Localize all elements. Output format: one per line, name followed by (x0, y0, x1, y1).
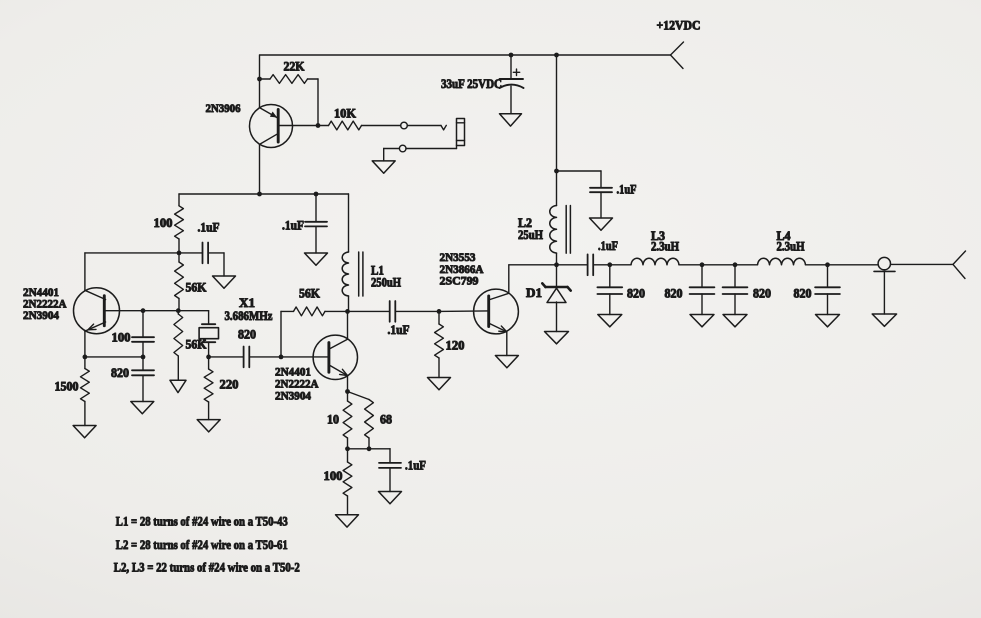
wire emitter bypass to ground (389, 468, 391, 492)
diode D1 zener (542, 265, 570, 332)
ground 120 (428, 378, 451, 390)
inductor L2 25uH (550, 206, 557, 254)
node 120 junction (437, 309, 442, 314)
resistor 1500 emitter (81, 357, 90, 426)
node top feed at bypass cap (314, 192, 319, 197)
svg-text:250uH: 250uH (371, 276, 401, 290)
capacitor 820 shunt 2 (690, 265, 715, 315)
capacitor 820 shunt 4 (815, 265, 840, 315)
label 820 shunt 2 (665, 287, 683, 301)
node top feed at 2N3906 collector (257, 192, 262, 197)
label 56K lower (186, 338, 207, 352)
capacitor .1uF interstage 2 (348, 301, 440, 322)
svg-text:2N3904: 2N3904 (23, 308, 59, 322)
node LPF-4 (825, 262, 830, 267)
label .1uF emitter bypass (405, 459, 426, 473)
wire base line to crystal (179, 310, 209, 312)
label Q2 2N4401 (275, 365, 311, 379)
svg-text:820: 820 (794, 287, 812, 301)
svg-text:.1uF: .1uF (617, 183, 637, 197)
label 820 shunt 4 (794, 287, 812, 301)
resistor 68 (348, 392, 374, 449)
label +12VDC (657, 19, 701, 33)
ground supply bypass (590, 218, 613, 230)
label 2N3866A (440, 262, 484, 276)
label 100 feed (154, 216, 173, 230)
svg-text:68: 68 (380, 413, 392, 427)
label 2N3906 (206, 101, 241, 115)
label 3.686MHz (225, 309, 273, 323)
output connector center pin (878, 257, 890, 269)
svg-text:100: 100 (324, 469, 343, 483)
ground osc bypass 1 (213, 276, 236, 288)
capacitor 820 interstage (209, 347, 281, 368)
node LPF-3 (733, 262, 738, 267)
svg-text:1500: 1500 (55, 380, 79, 394)
capacitor .1uF output coupling (588, 254, 594, 275)
node Q1 collector junction (177, 251, 182, 256)
node 2N3906 base junction (316, 123, 321, 128)
ground 820 feedback (131, 402, 154, 414)
label 250uH (371, 276, 401, 290)
ground D1 (545, 332, 569, 344)
key jack plug body (457, 119, 465, 146)
label L1 (371, 264, 384, 278)
label Q1 2N2222A (23, 297, 67, 311)
svg-text:L2 = 28 turns of #24 wire on a: L2 = 28 turns of #24 wire on a T50-61 (116, 537, 288, 552)
node LPF-2 (700, 262, 705, 267)
note L1 winding (116, 513, 288, 528)
resistor 56K upper bias (175, 253, 184, 311)
svg-text:220: 220 (220, 378, 239, 392)
wire cap to ground (600, 192, 602, 218)
node L2 bypass junction (554, 169, 559, 174)
capacitor 820 shunt 1 (597, 265, 622, 315)
label 56K feedback (299, 287, 320, 301)
label 120 (446, 339, 465, 353)
svg-text:2N3906: 2N3906 (206, 101, 241, 115)
wire emitter feedback (85, 356, 143, 358)
wire L3 to node (679, 264, 758, 266)
node Q1 base junction bias (176, 308, 181, 313)
wire L2 to collector node (556, 253, 558, 265)
label .1uF supply bypass (617, 183, 637, 197)
label L2 (518, 216, 532, 230)
inductor L3 2.3uH (631, 258, 679, 265)
label Q1 2N3904 (23, 308, 59, 322)
capacitor .1uF osc bypass 1 (179, 243, 224, 277)
wire PA collector line (509, 264, 588, 266)
wire +12V rail (260, 54, 671, 56)
transistor Q1 2N4401 oscillator (74, 253, 180, 357)
node Q2 collector junction (345, 309, 350, 314)
key jack tip contact circle (401, 122, 408, 129)
wire cap to L3 (593, 264, 631, 266)
node feedback junction (141, 355, 146, 360)
label Q2 2N2222A (275, 377, 319, 391)
svg-text:.1uF: .1uF (282, 219, 304, 233)
ground emitter bypass (379, 492, 402, 504)
svg-text:100: 100 (154, 216, 173, 230)
key jack sleeve contact circle (399, 145, 406, 152)
wire to .1uF bypass (557, 171, 602, 188)
node LPF-1 (607, 262, 612, 267)
svg-text:25uH: 25uH (518, 228, 543, 242)
svg-text:2SC799: 2SC799 (440, 274, 479, 288)
wire to PA base (439, 310, 487, 313)
node emitter RC junction A (345, 446, 350, 451)
svg-text:.1uF: .1uF (405, 459, 426, 473)
capacitor .1uF supply bypass (590, 188, 612, 192)
ground 220 (197, 420, 220, 432)
ground 1500 (73, 426, 96, 438)
capacitor .1uF emitter bypass (379, 463, 401, 468)
label .1uF output coupling (598, 239, 618, 253)
label L4 2.3uH (777, 240, 805, 254)
antenna connector off-page (953, 251, 966, 279)
resistor 100 emitter (343, 449, 352, 515)
svg-text:10: 10 (327, 413, 339, 427)
wire 22K to base (317, 79, 319, 126)
label 1500 (55, 380, 79, 394)
resistor 10K (318, 121, 401, 130)
label 820 shunt 3 (753, 287, 771, 301)
label 33uF 25VDC (441, 77, 502, 91)
label .1uF osc bypass 2 (282, 219, 304, 233)
ground LPF-4 (816, 315, 840, 327)
svg-text:L1 = 28 turns of #24 wire on a: L1 = 28 turns of #24 wire on a T50-43 (116, 513, 288, 528)
svg-text:820: 820 (111, 366, 129, 380)
svg-text:2.3uH: 2.3uH (651, 240, 679, 254)
resistor 22K (260, 75, 319, 84)
label 68 (380, 413, 392, 427)
svg-text:D1: D1 (526, 286, 542, 300)
label L3 (651, 229, 665, 243)
label Q1 2N4401 (23, 285, 59, 299)
inductor L1 250uH (342, 252, 348, 296)
wire L4 to connector (806, 264, 879, 266)
svg-text:+12VDC: +12VDC (657, 19, 701, 33)
svg-text:3.686MHz: 3.686MHz (225, 309, 273, 323)
ground 56K lower (170, 380, 186, 392)
label X1 (239, 296, 255, 310)
svg-text:2N3904: 2N3904 (275, 389, 311, 403)
capacitor C 33uF 25VDC polarized (500, 69, 524, 114)
svg-text:33uF 25VDC: 33uF 25VDC (441, 77, 502, 91)
ground LPF-1 (598, 315, 622, 327)
svg-text:.1uF: .1uF (598, 239, 618, 253)
note L2 L3 winding (114, 560, 300, 575)
node rail junction at L2 feed (554, 53, 559, 58)
transistor Q3 2N3553 PA (474, 265, 519, 356)
ground 100 emitter (336, 515, 359, 527)
node Q1 emitter junction (83, 355, 88, 360)
ground LPF-3 (723, 315, 747, 327)
ground PA emitter (495, 356, 518, 368)
label D1 (526, 286, 542, 300)
node Q2 emitter junction (345, 389, 350, 394)
svg-text:820: 820 (665, 287, 683, 301)
wire to antenna off-page (891, 263, 954, 265)
wire key jack sleeve to ground (406, 146, 457, 149)
capacitor .1uF osc bypass 2 (305, 194, 327, 253)
power connector +12VDC off-page (671, 42, 684, 69)
label 820 feedback (111, 366, 129, 380)
node Q1 base junction feedback (141, 308, 146, 313)
svg-text:56K: 56K (299, 287, 320, 301)
label 100 emitter (324, 469, 343, 483)
svg-text:120: 120 (446, 339, 465, 353)
svg-text:X1: X1 (239, 296, 255, 310)
label L4 (777, 229, 792, 243)
wire rail to L2 (556, 55, 558, 206)
transistor Q4 2N3906 (250, 105, 319, 195)
svg-text:820: 820 (753, 287, 771, 301)
label 22K (284, 60, 305, 74)
label 220 (220, 378, 239, 392)
wire L1 drop (348, 194, 350, 252)
resistor 56K lower bias (174, 311, 183, 381)
label 100 feedback (112, 331, 131, 345)
capacitor 820 shunt 3 (723, 265, 748, 315)
label 2SC799 (440, 274, 479, 288)
wire key contact arm (407, 125, 446, 130)
resistor 56K feedback Q2 (281, 307, 348, 357)
wire sleeve contact to ground (384, 149, 400, 161)
wire 2N3906 emitter to rail (259, 55, 261, 108)
resistor 10 (343, 392, 352, 449)
ground LPF-2 (690, 315, 714, 327)
svg-text:820: 820 (238, 328, 256, 342)
svg-text:56K: 56K (186, 338, 207, 352)
ground key jack (372, 161, 395, 173)
svg-text:2.3uH: 2.3uH (777, 240, 805, 254)
label 10 (327, 413, 339, 427)
ground 33uF (500, 114, 522, 126)
core L1 (359, 252, 363, 296)
label .1uF osc bypass 1 (198, 221, 220, 235)
wire 33uF to rail (510, 55, 512, 79)
wire Q1 collector (85, 252, 179, 254)
node Q2 base junction (279, 355, 284, 360)
svg-text:22K: 22K (284, 60, 305, 74)
ground osc bypass 2 (305, 253, 328, 265)
svg-text:10K: 10K (334, 107, 356, 121)
svg-text:100: 100 (112, 331, 131, 345)
inductor L4 2.3uH (758, 258, 806, 265)
node crystal output junction (206, 355, 211, 360)
resistor 100 collector feed (175, 194, 184, 253)
capacitor 820 feedback (132, 357, 154, 402)
wire L1 to collector (348, 296, 350, 311)
svg-text:.1uF: .1uF (388, 323, 410, 337)
wire top feed (179, 193, 349, 195)
capacitor 100 feedback (132, 311, 154, 357)
core L2 (566, 206, 570, 254)
resistor 120 (435, 311, 444, 377)
label .1uF interstage 2 (388, 323, 410, 337)
node emitter RC junction B (367, 446, 372, 451)
label 820 interstage (238, 328, 256, 342)
transistor Q2 2N4401 driver (281, 311, 357, 391)
label 820 shunt 1 (627, 287, 645, 301)
label 56K upper (186, 281, 207, 295)
label 25uH (518, 228, 543, 242)
note L2 winding (116, 537, 288, 552)
crystal X1 3.686MHz (199, 311, 218, 357)
label Q2 2N3904 (275, 389, 311, 403)
node rail junction at 33uF (509, 53, 514, 58)
node 22K tap (257, 77, 262, 82)
svg-text:L2, L3 = 22 turns of #24 wire: L2, L3 = 22 turns of #24 wire on a T50-2 (114, 560, 300, 575)
wire emitter RC (348, 449, 391, 463)
label L3 2.3uH (651, 240, 679, 254)
resistor 220 (204, 357, 213, 420)
svg-text:.1uF: .1uF (198, 221, 220, 235)
output connector shield (874, 271, 895, 314)
ground output connector (872, 314, 896, 326)
svg-text:56K: 56K (186, 281, 207, 295)
node PA collector junction (554, 262, 559, 267)
svg-text:820: 820 (627, 287, 645, 301)
label 10K (334, 107, 356, 121)
label 2N3553 (440, 250, 476, 264)
